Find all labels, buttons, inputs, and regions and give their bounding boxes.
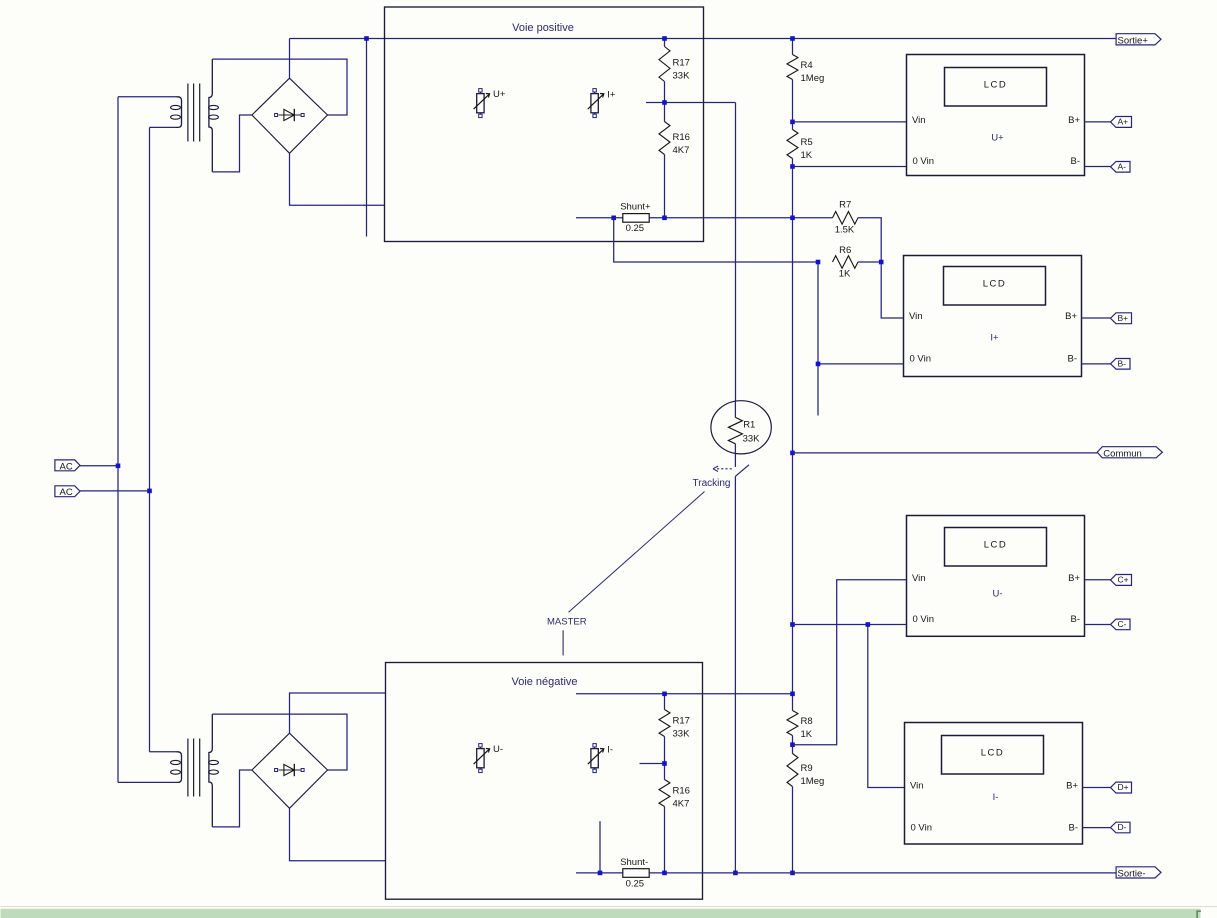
wire B- I+ to tag <box>1082 363 1111 365</box>
resistor R9 <box>787 754 798 787</box>
net tag B+ <box>1111 313 1132 324</box>
svg-text:0 Vin: 0 Vin <box>910 353 931 364</box>
transformer T1 <box>171 59 219 172</box>
potentiometer U+ <box>474 89 506 118</box>
svg-text:B+: B+ <box>1068 115 1080 126</box>
label R7 <box>835 200 855 236</box>
label R5 <box>801 137 813 161</box>
junction bus792 0Vin U+ <box>790 164 795 169</box>
label R16 <box>673 132 690 156</box>
label Voie positive <box>512 22 574 34</box>
wire to T2 primary top <box>150 751 177 753</box>
tracking wiper blade <box>735 465 749 477</box>
potentiometer I+ <box>588 89 616 118</box>
svg-text:Voie positive: Voie positive <box>512 22 574 34</box>
svg-text:R1: R1 <box>743 420 755 431</box>
wire stub below 0Vin <box>817 364 819 416</box>
label MASTER <box>547 617 587 628</box>
label R17 <box>673 58 691 82</box>
svg-text:R17: R17 <box>673 58 690 69</box>
wire bus792 seg2 <box>792 80 794 130</box>
svg-text:B+: B+ <box>1065 311 1077 322</box>
wire to T2 primary bottom <box>118 781 177 783</box>
LCD module U- <box>907 516 1085 637</box>
svg-text:0 Vin: 0 Vin <box>913 614 934 625</box>
resistor R17 (neg) <box>659 710 670 737</box>
wire bus792 seg1 <box>792 39 794 55</box>
wire shunt row right <box>649 217 832 219</box>
wire AC2 to bus <box>80 490 150 492</box>
wire R16 to shunt row <box>664 155 666 218</box>
junction shunt right <box>662 216 667 221</box>
net tag Sortie+ <box>1116 34 1161 47</box>
wire B+ I- to tag <box>1083 787 1111 789</box>
bridge rectifier D1 <box>252 78 328 153</box>
wire Vin I- feed <box>868 625 905 788</box>
net tag C+ <box>1111 575 1132 586</box>
svg-text:33K: 33K <box>743 434 761 445</box>
wire to T1 primary bottom <box>150 126 177 128</box>
resistor R16 (neg) <box>659 780 670 807</box>
svg-text:R4: R4 <box>801 60 813 71</box>
net tag D- <box>1111 822 1131 833</box>
svg-text:R5: R5 <box>801 137 813 148</box>
net tag B- <box>1111 358 1131 369</box>
net tag Sortie- <box>1116 867 1161 880</box>
wire node row y102 <box>646 102 736 104</box>
wire row y693 <box>576 693 793 695</box>
svg-text:B-: B- <box>1118 358 1127 368</box>
wire Vin U+ row <box>793 121 907 123</box>
junction R6 right <box>879 260 884 265</box>
svg-text:1Meg: 1Meg <box>801 776 825 787</box>
label R1 <box>743 420 761 445</box>
svg-text:I-: I- <box>993 792 999 803</box>
svg-text:4K7: 4K7 <box>673 145 690 156</box>
junction node y102 <box>662 100 667 105</box>
LCD module U+ <box>907 55 1085 176</box>
wire stub above shunt <box>599 821 601 873</box>
junction AC2 <box>147 489 152 494</box>
junction shuntb right <box>662 871 667 876</box>
svg-text:A-: A- <box>1118 161 1127 171</box>
svg-text:R17: R17 <box>673 716 690 727</box>
wire R17b to node <box>664 737 666 764</box>
junction Sortie+ rail / stub <box>364 36 369 41</box>
svg-text:D+: D+ <box>1118 782 1129 792</box>
wire R17b top lead <box>664 694 666 710</box>
wire AC bus right vertical <box>149 127 151 751</box>
svg-text:R16: R16 <box>673 132 690 143</box>
LCD module I- <box>905 723 1083 845</box>
wire B- U- to tag <box>1085 624 1111 626</box>
label R8 <box>801 716 813 740</box>
svg-text:Vin: Vin <box>910 781 924 792</box>
svg-text:B+: B+ <box>1118 313 1129 323</box>
resistor R4 <box>787 55 798 80</box>
svg-text:A+: A+ <box>1118 117 1129 127</box>
svg-text:B-: B- <box>1071 614 1081 625</box>
svg-text:Commun: Commun <box>1103 448 1142 459</box>
svg-text:1K: 1K <box>801 150 813 161</box>
wire 0Vin U- row <box>793 624 907 626</box>
svg-text:C-: C- <box>1118 619 1127 629</box>
label Shunt+ <box>620 202 651 234</box>
potentiometer U- <box>474 744 503 773</box>
wire B- U+ to tag <box>1085 166 1111 168</box>
svg-text:0 Vin: 0 Vin <box>911 823 932 834</box>
transformer T2 <box>171 714 219 827</box>
resistor R8 <box>787 711 798 736</box>
wire bridge D1 minus to box <box>290 153 385 205</box>
wire Commun rail <box>793 452 1098 454</box>
svg-text:R7: R7 <box>839 200 851 211</box>
wire R6 right junction link <box>858 261 881 263</box>
svg-text:D-: D- <box>1118 822 1127 832</box>
svg-text:Vin: Vin <box>909 311 923 322</box>
svg-text:AC: AC <box>60 487 73 498</box>
svg-text:Voie négative: Voie négative <box>511 676 577 688</box>
wire R16b to shunt row <box>664 807 666 873</box>
svg-text:B+: B+ <box>1066 781 1078 792</box>
wire node stub y763 <box>640 763 665 765</box>
junction bus792 Sortie- <box>790 871 795 876</box>
svg-text:LCD: LCD <box>983 279 1007 290</box>
svg-text:Sortie+: Sortie+ <box>1118 35 1149 46</box>
wire T2 secondary top to bridge <box>212 714 347 770</box>
wire R17 to node <box>664 82 666 103</box>
tracking pot R1 circle <box>711 401 771 454</box>
wire R1 wiper bus down <box>734 476 736 873</box>
LCD module I+ <box>904 256 1082 377</box>
resistor R1 zigzag <box>728 417 742 443</box>
wire bus792 seg5 <box>792 787 794 873</box>
svg-text:MASTER: MASTER <box>547 617 587 628</box>
net tag D+ <box>1111 782 1132 793</box>
svg-text:33K: 33K <box>673 729 691 740</box>
shunt resistor Shunt+ <box>623 214 649 223</box>
label R17b <box>673 716 691 740</box>
svg-text:U-: U- <box>992 589 1002 600</box>
wire into R1 <box>734 401 736 417</box>
annotation line MASTER-Tracking <box>569 492 705 613</box>
junction bus792 R8 bottom <box>790 742 795 747</box>
svg-text:LCD: LCD <box>984 80 1008 91</box>
svg-text:1K: 1K <box>801 729 813 740</box>
svg-text:C+: C+ <box>1118 575 1129 585</box>
svg-text:0 Vin: 0 Vin <box>913 156 934 167</box>
wire bridge D1 plus to Sortie+ rail <box>289 39 291 79</box>
svg-text:R6: R6 <box>839 245 851 256</box>
junction bus792 Sortie+ <box>790 36 795 41</box>
net tag C- <box>1111 619 1131 630</box>
svg-text:B-: B- <box>1069 823 1079 834</box>
resistor R16 <box>659 122 670 155</box>
label Tracking <box>693 478 731 489</box>
svg-text:U+: U+ <box>493 89 506 100</box>
svg-text:Vin: Vin <box>912 115 926 126</box>
wire bridge D2 top to box <box>290 693 386 733</box>
wire Vin U- feed <box>793 580 907 745</box>
svg-text:LCD: LCD <box>984 540 1008 551</box>
net tag AC (upper) <box>55 460 80 472</box>
svg-text:I+: I+ <box>607 89 616 100</box>
svg-text:4K7: 4K7 <box>673 799 690 810</box>
wire bridge D2 bottom to box <box>290 808 386 861</box>
wire shunt tap down <box>614 218 818 262</box>
wire R16b top lead <box>664 764 666 780</box>
shunt resistor Shunt- <box>623 869 649 878</box>
wire T1 secondary top to bridge <box>212 59 347 115</box>
wire B- I- to tag <box>1083 827 1111 829</box>
wire R17 top lead <box>664 39 666 47</box>
wire R16 top lead <box>664 103 666 122</box>
wire T1 secondary bottom to bridge <box>212 115 252 172</box>
svg-text:33K: 33K <box>673 71 691 82</box>
svg-text:B-: B- <box>1068 353 1078 364</box>
junction bus792 R8 top <box>790 692 795 697</box>
net tag Commun <box>1097 447 1162 460</box>
svg-text:Shunt-: Shunt- <box>620 857 648 868</box>
svg-text:0.25: 0.25 <box>626 223 645 234</box>
svg-text:U+: U+ <box>991 133 1004 144</box>
svg-text:Shunt+: Shunt+ <box>620 202 651 213</box>
wire bus792 seg4 <box>792 736 794 754</box>
svg-text:R8: R8 <box>801 716 813 727</box>
junction AC1 <box>116 464 121 469</box>
net tag A- <box>1111 161 1131 172</box>
svg-text:0.25: 0.25 <box>626 878 645 889</box>
junction wiper Sortie- <box>733 871 738 876</box>
wire Sortie+ rail <box>290 38 1116 40</box>
junction bus792 0Vin U- <box>790 622 795 627</box>
junction Vin I- tap <box>866 622 871 627</box>
tracking dashed arrow <box>713 466 732 471</box>
svg-text:1K: 1K <box>839 269 851 280</box>
wire Sortie- rail <box>649 872 1115 874</box>
svg-text:1Meg: 1Meg <box>801 73 825 84</box>
label R6 <box>839 245 852 279</box>
wire R7 right to I+ Vin <box>858 218 904 318</box>
potentiometer I- <box>588 744 613 773</box>
resistor R7 <box>833 212 859 225</box>
wire T2 secondary bottom to bridge <box>212 770 252 827</box>
label Voie negative <box>511 676 577 688</box>
module box Voie negative <box>386 663 703 900</box>
wire B+ I+ to tag <box>1082 317 1111 319</box>
label R16b <box>673 786 690 810</box>
net tag A+ <box>1111 117 1132 128</box>
junction node y763 <box>662 761 667 766</box>
wire shuntb row left <box>576 872 623 874</box>
svg-text:I-: I- <box>607 744 613 755</box>
junction shunt left <box>611 216 616 221</box>
svg-text:R9: R9 <box>801 763 813 774</box>
svg-text:U-: U- <box>493 744 503 755</box>
svg-text:I+: I+ <box>990 333 999 344</box>
svg-text:LCD: LCD <box>981 748 1005 759</box>
resistor R17 <box>659 47 670 82</box>
wire AC1 to bus <box>80 465 118 467</box>
wire B+ U- to tag <box>1085 579 1111 581</box>
wire node y102 to R1 <box>735 103 737 402</box>
svg-text:1.5K: 1.5K <box>835 225 855 236</box>
wire shunt row left <box>576 217 623 219</box>
svg-text:Tracking: Tracking <box>693 478 731 489</box>
svg-text:B+: B+ <box>1068 573 1080 584</box>
label Shunt- <box>620 857 648 889</box>
wire B+ U+ to tag <box>1085 121 1111 123</box>
junction R17b top <box>662 692 667 697</box>
wire R6 left to 0Vin I+ <box>818 262 904 364</box>
junction R6 left <box>816 260 821 265</box>
junction 0Vin I+ row <box>816 362 821 367</box>
wire bus792 seg3 <box>792 159 794 711</box>
svg-text:R16: R16 <box>673 786 690 797</box>
status bar <box>1 906 1217 918</box>
junction shuntb left <box>598 871 603 876</box>
svg-text:Sortie-: Sortie- <box>1118 869 1146 880</box>
svg-text:AC: AC <box>60 461 73 472</box>
net tag AC (lower) <box>55 486 80 498</box>
master stub line <box>562 630 564 655</box>
wire stub node S1 <box>366 39 368 237</box>
module box Voie positive <box>385 7 704 242</box>
junction R17 top <box>662 36 667 41</box>
resistor R6 <box>833 256 859 269</box>
svg-text:Vin: Vin <box>912 573 926 584</box>
wire to T1 primary top <box>118 96 177 98</box>
svg-text:B-: B- <box>1071 156 1081 167</box>
junction bus792 shunt row <box>790 216 795 221</box>
junction bus792 Commun <box>790 451 795 456</box>
wire AC bus left vertical <box>117 97 119 783</box>
bridge rectifier D2 <box>252 733 328 808</box>
wire below R1 <box>734 444 736 467</box>
junction bus792 Vin U+ <box>790 120 795 125</box>
label R9 <box>801 763 825 787</box>
label R4 <box>801 60 825 84</box>
resistor R5 <box>787 130 798 159</box>
wire 0Vin U+ row <box>793 166 907 168</box>
